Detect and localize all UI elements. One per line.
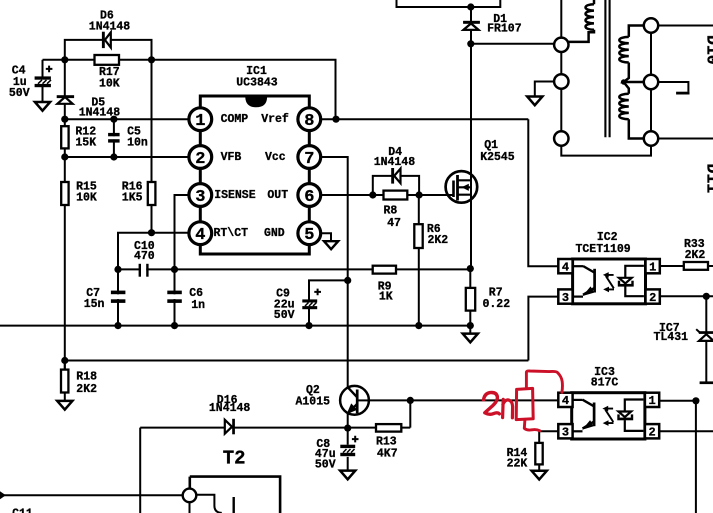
svg-text:22K: 22K (507, 457, 528, 470)
T2 core line (232, 497, 234, 513)
svg-text:10K: 10K (99, 78, 120, 91)
junction C5 bottom on VFB rail (110, 153, 117, 160)
wire IC3 pin2 out (659, 430, 713, 432)
wire D16 corner down (139, 428, 141, 513)
junction C9 top on Vcc line (344, 277, 351, 284)
wire pin6 OUT gate rail (319, 194, 454, 196)
svg-text:Vcc: Vcc (265, 151, 286, 164)
wire C6 branch (174, 269, 176, 325)
svg-text:R8: R8 (384, 205, 398, 218)
IC3 phototransistor (572, 400, 594, 432)
resistor R16 (148, 182, 156, 205)
wire D1 node to transformer pin (471, 43, 556, 45)
wire C5 bridge (113, 119, 115, 157)
wire D6 bypass rail (65, 40, 152, 60)
wire pin4 RT\CT lead (118, 233, 200, 270)
svg-text:C11: C11 (12, 508, 33, 513)
svg-text:RT\CT: RT\CT (214, 227, 249, 240)
IC1 notch (245, 98, 267, 108)
svg-text:2: 2 (195, 150, 205, 169)
svg-text:ISENSE: ISENSE (214, 189, 256, 202)
svg-text:2K2: 2K2 (76, 383, 97, 396)
junction D5/R12 on COMP rail (61, 116, 68, 123)
junction transformer center tap (621, 79, 626, 84)
T2 winding start (196, 495, 221, 513)
svg-text:8: 8 (304, 112, 314, 131)
junction R17/D6/R16 node (148, 56, 155, 63)
diode D6 (102, 32, 111, 48)
svg-text:470: 470 (134, 250, 155, 263)
transformer primary winding (567, 0, 594, 42)
junction C9 bottom on ground rail (305, 322, 312, 329)
resistor R6 (414, 224, 422, 248)
wire snubber box bottom at top edge (397, 0, 501, 7)
wire R16 column x=151.5 (151, 60, 153, 233)
resistor R14 (535, 443, 542, 465)
svg-text:COMP: COMP (221, 113, 249, 126)
wire Q2 emitter to C8 (347, 414, 349, 471)
svg-text:4: 4 (562, 260, 569, 274)
wire feedback rail y=360.5 (65, 360, 529, 362)
transistor Q2 A1015 (340, 386, 369, 415)
svg-text:7: 7 (304, 150, 314, 169)
svg-text:D10: D10 (702, 35, 713, 65)
svg-text:15K: 15K (75, 137, 96, 150)
IC2 light arrows (603, 272, 614, 292)
wire R6 column (418, 195, 420, 326)
IC3 817C body (572, 393, 645, 439)
junction C6 bottom on ground rail (171, 322, 178, 329)
svg-text:10K: 10K (76, 191, 97, 204)
transistor Q1 K2545 MOSFET (419, 7, 480, 269)
resistor R7 (466, 288, 475, 311)
wire left column x=64.8 (D5,R12,R15 run) (64, 60, 66, 370)
svg-text:OUT: OUT (267, 189, 288, 202)
svg-text:1N4148: 1N4148 (89, 20, 131, 33)
ground under R18 (57, 401, 72, 410)
junction Q2 emitter/C8/R13 node (344, 425, 351, 432)
wire y=269 rail C10/R9 (118, 268, 470, 270)
svg-text:D11: D11 (702, 164, 713, 194)
wire T2 input rail (2, 494, 183, 496)
ground under R7 (463, 334, 478, 343)
capacitor C9 (electrolytic) (302, 289, 321, 310)
wire R13 riser (401, 400, 410, 427)
diode D1 (463, 21, 480, 30)
wire top-right secondary out (651, 25, 713, 27)
transformer T1 core (605, 0, 609, 137)
IC1 pin circles (189, 108, 321, 245)
wire pin3 ISENSE lead (175, 195, 201, 269)
svg-text:4: 4 (562, 394, 569, 408)
svg-text:1N4148: 1N4148 (374, 156, 416, 169)
diode D5 (57, 95, 74, 104)
svg-text:1n: 1n (191, 299, 205, 312)
junction D4/R8 left node (369, 191, 376, 198)
wire pin2 VFB rail (65, 156, 200, 158)
junction R16 bottom on RT\CT wire (148, 229, 155, 236)
bar terminator right of transformer (676, 92, 689, 95)
red annotation: hand-drawn resistor over pin4 wire (484, 371, 563, 431)
junction R6 bottom on ground rail (415, 322, 422, 329)
svg-text:4: 4 (195, 226, 205, 245)
wire transformer mid-left pin to ground (535, 82, 562, 97)
svg-text:3: 3 (562, 291, 569, 305)
wire C4 top lead (42, 60, 44, 77)
IC3 light arrows (602, 406, 613, 426)
svg-text:2K2: 2K2 (685, 249, 706, 262)
svg-text:VFB: VFB (221, 151, 242, 164)
junction IC3 pin1 node (692, 397, 699, 404)
wire mid-right secondary to bar (651, 82, 688, 92)
junction Q1 source/R9/R7 node (467, 265, 474, 272)
wire transformer left rail and bottom U (561, 0, 651, 156)
wire transformer right rail (650, 26, 652, 146)
IC1 UC3843 body (200, 96, 309, 254)
junction C4/R17/D6/D5 node (61, 56, 68, 63)
wire pin1 COMP rail (65, 118, 200, 120)
svg-text:2: 2 (648, 426, 655, 440)
svg-text:Vref: Vref (261, 113, 289, 126)
diode D4 (391, 168, 400, 184)
svg-text:1N4148: 1N4148 (209, 402, 251, 415)
svg-text:15n: 15n (84, 298, 105, 311)
junction C7 bottom on ground rail (114, 322, 121, 329)
wire R7 bottom to ground (469, 269, 471, 334)
T2 terminal circle (183, 489, 197, 503)
svg-text:GND: GND (264, 227, 285, 240)
svg-text:47: 47 (387, 217, 401, 230)
junction C6/C10 right node (171, 266, 178, 273)
svg-text:50V: 50V (315, 459, 336, 472)
junction C7/C10 left node (114, 266, 121, 273)
IC2 TCET1109 body (573, 259, 646, 304)
capacitor C4 (electrolytic) (35, 66, 53, 88)
diode D16 (225, 419, 235, 435)
junction C5 top on COMP rail (110, 116, 117, 123)
wire y=325.6 ground rail (0, 325, 470, 327)
svg-text:T2: T2 (223, 448, 246, 470)
wire pin7 Vcc run down to Q2 (319, 157, 348, 387)
wire IC2 pin1 to R33 (660, 265, 713, 267)
capacitor C6 (167, 291, 182, 303)
svg-text:K2545: K2545 (480, 151, 515, 164)
svg-text:50V: 50V (274, 309, 295, 322)
svg-text:1: 1 (649, 260, 656, 274)
svg-text:2: 2 (649, 291, 656, 305)
transformer secondary bottom winding (619, 82, 644, 139)
wire pin8 Vref rail (319, 118, 528, 120)
capacitor C8 (electrolytic) (340, 436, 358, 456)
junction R18 top on feedback rail (61, 357, 68, 364)
svg-text:A1015: A1015 (296, 395, 331, 408)
wire R17 rail from C4 to pin8 corner (43, 60, 336, 119)
svg-text:1N4148: 1N4148 (79, 107, 121, 120)
resistor R13 (376, 424, 401, 432)
resistor R17 (95, 55, 120, 65)
wire C7 branch (117, 269, 119, 325)
wire IC2 pin3 to feedback rail (528, 297, 558, 361)
svg-text:UC3843: UC3843 (236, 76, 278, 89)
resistor R33 (684, 262, 708, 270)
wire C9 branch (309, 280, 348, 325)
capacitor C7 (111, 291, 126, 303)
wire D4 bypass loop (373, 176, 419, 195)
ground under C8 (340, 471, 355, 480)
svg-text:TCET1109: TCET1109 (575, 243, 630, 256)
capacitor C10 (139, 263, 149, 278)
wire TL431 string (705, 296, 707, 381)
junction R12/R15 on VFB rail (61, 153, 68, 160)
resistor R12 (61, 126, 68, 148)
ground at transformer primary (527, 97, 542, 106)
ground at IC1 pin5 (324, 241, 338, 249)
transformer T2 box (190, 477, 280, 513)
transformer secondary top winding (619, 26, 644, 83)
wire IC2 pin2 out (660, 295, 713, 297)
junction R13/Q2 base wire node (407, 397, 414, 404)
svg-text:50V: 50V (9, 87, 30, 100)
junction IC2 pin2/TL431 node (703, 293, 710, 300)
left edge arrow into T2 rail (0, 491, 6, 499)
wire D16 rail (140, 427, 376, 429)
IC2 LED (618, 266, 644, 296)
svg-text:2K2: 2K2 (428, 234, 449, 247)
junction snubber box bottom node (467, 3, 474, 10)
svg-text:1K5: 1K5 (122, 191, 143, 204)
IC3 pin boxes (558, 393, 659, 439)
IC2 pin boxes (558, 259, 660, 304)
svg-text:1: 1 (195, 112, 205, 131)
svg-text:4K7: 4K7 (377, 448, 398, 461)
TL431 zener symbol IC7 (696, 329, 713, 384)
svg-text:TL431: TL431 (654, 331, 689, 344)
capacitor C5 (107, 133, 121, 143)
svg-text:1: 1 (648, 394, 655, 408)
resistor R15 (61, 182, 68, 205)
junction D1/transformer node (467, 40, 474, 47)
ground under R14 (532, 471, 547, 480)
T2 below-circle lead (189, 502, 191, 513)
junction R7 bottom on ground rail (467, 322, 474, 329)
junction D4/R8/R6 gate node (416, 191, 423, 198)
wire Q2 base to IC3 pin4 (369, 399, 559, 401)
svg-text:3: 3 (562, 426, 569, 440)
wire R18 leads (64, 361, 66, 401)
svg-text:FR107: FR107 (487, 23, 522, 36)
svg-text:3: 3 (195, 188, 205, 207)
resistor R8 (384, 191, 408, 200)
wire C4 bottom lead (42, 87, 44, 102)
wire IC3 pin1 to node (659, 401, 696, 513)
wire IC3 pin3 to R14 (539, 431, 558, 470)
junction Vref rail node (332, 116, 339, 123)
svg-text:R18: R18 (76, 371, 97, 384)
svg-text:0.22: 0.22 (483, 298, 511, 311)
svg-text:6: 6 (304, 188, 314, 207)
resistor R9 (373, 266, 396, 274)
svg-text:1K: 1K (379, 290, 393, 303)
wire pin5 GND stub (319, 233, 331, 241)
wire bottom-right secondary out (651, 138, 713, 140)
svg-text:5: 5 (304, 226, 314, 245)
transformer terminal circles (554, 18, 658, 145)
IC3 LED (617, 400, 643, 431)
svg-text:10n: 10n (127, 137, 148, 150)
ground under C4 (35, 102, 50, 111)
wire IC2 pin4 feed from Vref rail (528, 119, 558, 266)
resistor R18 (61, 370, 68, 393)
svg-text:817C: 817C (591, 377, 619, 390)
IC2 phototransistor (573, 266, 595, 297)
